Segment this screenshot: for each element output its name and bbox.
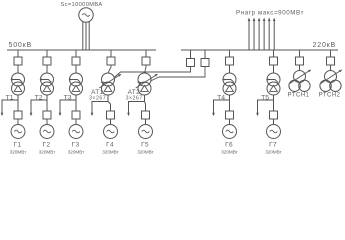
node: 500кВ busbar bbox=[7, 49, 156, 51]
auxiliary load arrow of unit Г7 bbox=[256, 113, 259, 116]
circuit breaker CB-Т4 bbox=[226, 57, 234, 65]
svg-text:РТСН2: РТСН2 bbox=[319, 92, 341, 98]
wire: transformer АТ2 to generator CB bbox=[144, 95, 146, 102]
wire: CB to generator Г5 bbox=[145, 119, 147, 125]
wire: CB АТ2-220 to 220кВ bus bbox=[204, 50, 206, 59]
wire: CB to transformer Т1 bbox=[17, 65, 19, 73]
wire: CB to РТСН2 bbox=[330, 65, 332, 71]
wire: CB to generator Г7 bbox=[273, 119, 275, 125]
wire: CB to transformer АТ2 bbox=[145, 65, 147, 73]
wire: CB to generator Г2 bbox=[46, 119, 48, 125]
auxiliary load arrow of unit Г4 bbox=[91, 113, 94, 116]
svg-text:Г1: Г1 bbox=[14, 141, 22, 148]
wire: transformer Т1 to generator CB bbox=[17, 95, 19, 100]
svg-text:320МВт: 320МВт bbox=[265, 149, 282, 154]
wire: CB to generator Г1 bbox=[17, 119, 19, 125]
transformer Т2 HV winding (circle) bbox=[41, 73, 54, 86]
wire: CB to transformer Т2 bbox=[46, 65, 48, 73]
generator circuit breaker CB-Г2 bbox=[43, 111, 51, 119]
tap-changer arrow of Т1 bbox=[13, 80, 23, 83]
auxiliary load branch of unit Г2 bbox=[31, 100, 47, 113]
wire: АТ2 MV side to its 220кВ CB bbox=[151, 67, 206, 82]
wire: CB to transformer Т4 bbox=[229, 65, 231, 73]
transformer Т4 HV winding (circle) bbox=[223, 73, 236, 86]
wire: 500кВ bus to CB of Т3 bbox=[75, 50, 77, 57]
transformer АТ1 HV winding (circle) bbox=[102, 73, 115, 86]
circuit breaker CB-Т5 bbox=[270, 57, 278, 65]
svg-text:3×267: 3×267 bbox=[89, 96, 106, 102]
svg-text:320МВт: 320МВт bbox=[68, 149, 85, 154]
generator circuit breaker CB-Г1 bbox=[14, 111, 22, 119]
transformer Т3 LV winding (circle with delta) bbox=[70, 82, 83, 95]
wire: CB to generator Г4 bbox=[110, 119, 112, 125]
svg-text:РТСН1: РТСН1 bbox=[288, 92, 310, 98]
wire: transformer Т3 to generator CB bbox=[75, 95, 77, 100]
auxiliary load branch of unit Г4 bbox=[92, 102, 108, 114]
transformer АТ2 HV winding (circle) bbox=[138, 73, 151, 86]
wire: 500кВ bus to CB of Т1 bbox=[17, 50, 19, 57]
regulation diagonal arrow of АТ1 bbox=[99, 75, 119, 88]
regulation diagonal arrow of РТСН1 bbox=[290, 71, 310, 84]
generator Г5 bbox=[139, 125, 153, 139]
circuit breaker CB-РТСН2 bbox=[327, 57, 335, 65]
svg-text:320МВт: 320МВт bbox=[39, 149, 56, 154]
system source GS (equivalent 500кВ system) bbox=[79, 8, 93, 22]
generator Г1 bbox=[11, 125, 25, 139]
svg-text:320МВт: 320МВт bbox=[10, 149, 27, 154]
auxiliary load arrow of unit Г6 bbox=[212, 113, 215, 116]
circuit breaker CB-Т1 bbox=[14, 57, 22, 65]
auxiliary load branch of unit Г3 bbox=[60, 100, 76, 113]
РТСН1 LV winding a bbox=[289, 80, 300, 91]
wire: 500кВ bus to CB of Т2 bbox=[46, 50, 48, 57]
wire: 220кВ bus to CB of РТСН1 bbox=[299, 50, 301, 57]
circuit breaker CB-Т2 bbox=[43, 57, 51, 65]
wire: system source to 500кВ bus (3 parallel lines) bbox=[82, 21, 84, 50]
generator Г6 bbox=[223, 125, 237, 139]
wire: 500кВ bus to CB of АТ2 bbox=[145, 50, 147, 57]
РТСН2 LV winding b bbox=[330, 80, 341, 91]
wire: CB to РТСН1 bbox=[299, 65, 301, 71]
auxiliary load arrow of unit Г3 bbox=[59, 113, 62, 116]
wire: CB to generator Г6 bbox=[229, 119, 231, 125]
tap-changer arrow of Т2 bbox=[42, 80, 52, 83]
transformer Т5 HV winding (circle) bbox=[267, 73, 280, 86]
tap-changer arrow of АТ2 bbox=[140, 82, 146, 84]
svg-text:Г4: Г4 bbox=[106, 141, 114, 148]
svg-text:Г5: Г5 bbox=[141, 141, 149, 148]
wire: 220кВ bus to CB of РТСН2 bbox=[330, 50, 332, 57]
wire: 220кВ bus to CB of Т4 bbox=[229, 50, 231, 57]
svg-text:220кВ: 220кВ bbox=[313, 42, 336, 49]
svg-text:500кВ: 500кВ bbox=[9, 42, 32, 49]
wire: 220кВ bus to CB of Т5 bbox=[273, 50, 275, 57]
generator Г7 bbox=[267, 125, 281, 139]
generator circuit breaker CB-Г6 bbox=[226, 111, 234, 119]
svg-text:320МВт: 320МВт bbox=[102, 149, 119, 154]
transformer АТ2 LV winding (circle with delta) bbox=[138, 82, 151, 95]
circuit breaker CB-РТСН1 bbox=[296, 57, 304, 65]
transformer Т5 LV winding (circle with delta) bbox=[267, 82, 280, 95]
generator Г3 bbox=[69, 125, 83, 139]
svg-text:Г6: Г6 bbox=[225, 141, 233, 148]
transformer Т1 HV winding (circle) bbox=[12, 73, 25, 86]
wire: 500кВ bus to CB of АТ1 bbox=[110, 50, 112, 57]
tap-changer arrow of Т4 bbox=[225, 80, 235, 83]
auxiliary load branch of unit Г1 bbox=[2, 100, 18, 113]
wire: CB to generator Г3 bbox=[75, 119, 77, 125]
wire: CB to transformer Т5 bbox=[273, 65, 275, 73]
node: 220кВ busbar bbox=[181, 49, 338, 51]
auxiliary load arrow of unit Г1 bbox=[1, 113, 4, 116]
generator circuit breaker CB-Г3 bbox=[72, 111, 80, 119]
tap-changer arrow of АТ1 bbox=[104, 82, 110, 84]
circuit breaker CB АТ2-220 bbox=[201, 59, 209, 67]
auxiliary load arrow of unit Г5 bbox=[127, 113, 130, 116]
wire: transformer АТ1 to generator CB bbox=[107, 95, 109, 102]
svg-text:Sс=10000МВА: Sс=10000МВА bbox=[60, 2, 102, 8]
svg-text:320МВт: 320МВт bbox=[137, 149, 154, 154]
svg-text:320МВт: 320МВт bbox=[221, 149, 238, 154]
РТСН1 LV winding b bbox=[299, 80, 310, 91]
auxiliary load branch of unit Г7 bbox=[258, 100, 274, 113]
tap-changer arrow of Т3 bbox=[71, 80, 81, 83]
РТСН2 LV winding a bbox=[320, 80, 331, 91]
load feeders of 220кВ bus (6 arrows up) bbox=[248, 21, 250, 50]
wire: CB to transformer АТ1 bbox=[108, 65, 111, 73]
wire: CB to transformer Т3 bbox=[75, 65, 77, 73]
svg-text:3×267: 3×267 bbox=[126, 96, 143, 102]
svg-text:Г3: Г3 bbox=[72, 141, 80, 148]
circuit breaker CB-АТ2 bbox=[142, 57, 150, 65]
regulation diagonal arrow of РТСН2 bbox=[321, 71, 341, 84]
transformer Т3 HV winding (circle) bbox=[70, 73, 83, 86]
wire: transformer Т4 to generator CB bbox=[229, 95, 231, 100]
svg-text:Рнагр макс=900МВт: Рнагр макс=900МВт bbox=[236, 9, 304, 16]
reserve auxiliary transformer РТСН1 HV winding bbox=[294, 71, 306, 83]
reserve auxiliary transformer РТСН2 HV winding bbox=[325, 71, 337, 83]
auxiliary load branch of unit Г5 bbox=[129, 102, 145, 114]
auxiliary load branch of unit Г6 bbox=[214, 100, 230, 113]
wire: АТ1 MV side to its 220кВ CB bbox=[114, 67, 191, 78]
generator Г4 bbox=[104, 125, 118, 139]
generator circuit breaker CB-Г4 bbox=[107, 111, 115, 119]
svg-text:Г7: Г7 bbox=[269, 141, 277, 148]
regulation diagonal arrow of АТ2 bbox=[136, 75, 156, 88]
generator circuit breaker CB-Г5 bbox=[142, 111, 150, 119]
generator Г2 bbox=[40, 125, 54, 139]
svg-text:Г2: Г2 bbox=[43, 141, 51, 148]
transformer АТ1 LV winding (circle with delta) bbox=[102, 82, 115, 95]
transformer Т1 LV winding (circle with delta) bbox=[12, 82, 25, 95]
transformer Т4 LV winding (circle with delta) bbox=[223, 82, 236, 95]
auxiliary load arrow of unit Г2 bbox=[30, 113, 33, 116]
wire: CB АТ1-220 to 220кВ bus bbox=[190, 50, 192, 59]
transformer Т2 LV winding (circle with delta) bbox=[41, 82, 54, 95]
generator circuit breaker CB-Г7 bbox=[270, 111, 278, 119]
circuit breaker CB АТ1-220 bbox=[187, 59, 195, 67]
circuit breaker CB-Т3 bbox=[72, 57, 80, 65]
circuit breaker CB-АТ1 bbox=[107, 57, 115, 65]
wire: transformer Т2 to generator CB bbox=[46, 95, 48, 100]
wire: transformer Т5 to generator CB bbox=[273, 95, 275, 100]
tap-changer arrow of Т5 bbox=[269, 80, 279, 83]
